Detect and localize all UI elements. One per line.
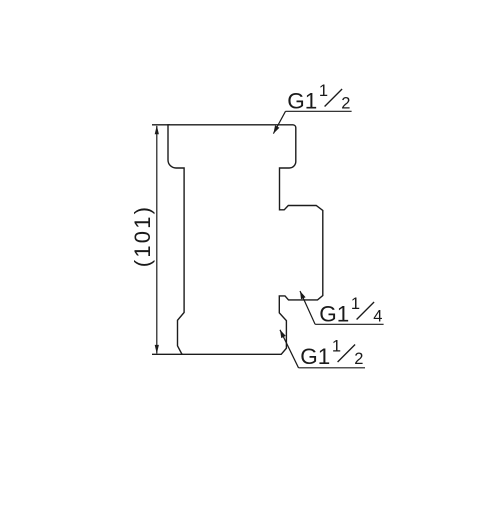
svg-text:(101): (101)	[130, 205, 155, 267]
svg-text:2: 2	[341, 94, 350, 112]
svg-text:G1: G1	[287, 89, 317, 114]
svg-text:4: 4	[373, 307, 382, 325]
svg-text:G1: G1	[319, 302, 349, 327]
svg-text:1: 1	[319, 82, 328, 100]
svg-text:1: 1	[332, 338, 341, 356]
svg-text:1: 1	[351, 295, 360, 313]
svg-text:2: 2	[354, 350, 363, 368]
svg-text:G1: G1	[300, 344, 330, 369]
